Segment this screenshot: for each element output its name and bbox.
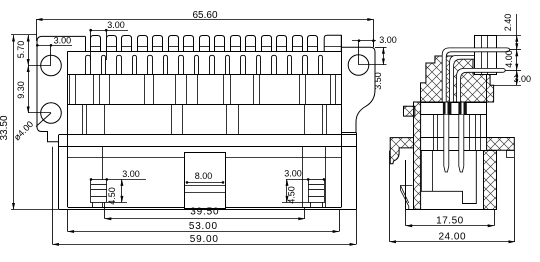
svg-text:33.50: 33.50 <box>0 115 10 140</box>
svg-text:4.00: 4.00 <box>504 50 514 68</box>
svg-text:65.60: 65.60 <box>192 10 217 21</box>
svg-text:17.50: 17.50 <box>436 215 464 226</box>
svg-text:3.00: 3.00 <box>54 36 72 46</box>
svg-text:3.00: 3.00 <box>284 169 302 179</box>
svg-text:8.00: 8.00 <box>195 171 213 181</box>
svg-text:3.50: 3.50 <box>373 72 383 90</box>
svg-text:9.30: 9.30 <box>16 81 26 99</box>
svg-text:3.00: 3.00 <box>107 20 125 30</box>
svg-text:3.00: 3.00 <box>514 74 532 84</box>
svg-text:4.50: 4.50 <box>107 187 117 205</box>
svg-text:53.00: 53.00 <box>189 221 218 232</box>
svg-text:39.50: 39.50 <box>190 207 219 218</box>
svg-text:4.50: 4.50 <box>287 186 297 204</box>
svg-text:24.00: 24.00 <box>438 232 466 243</box>
svg-text:3.00: 3.00 <box>122 169 140 179</box>
svg-text:2.40: 2.40 <box>503 14 513 32</box>
svg-text:5.70: 5.70 <box>16 41 26 59</box>
svg-text:3.00: 3.00 <box>379 35 397 45</box>
svg-text:59.00: 59.00 <box>190 234 219 245</box>
